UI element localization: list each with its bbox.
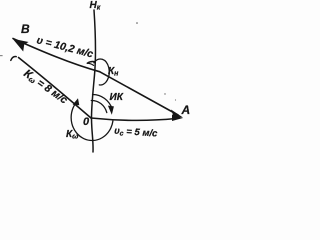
svg-text:Кω: Кω	[66, 129, 78, 141]
svg-text:ИК: ИК	[110, 92, 124, 103]
svg-text:А: А	[181, 103, 191, 117]
svg-text:0: 0	[83, 116, 90, 128]
svg-text:В: В	[21, 22, 30, 36]
